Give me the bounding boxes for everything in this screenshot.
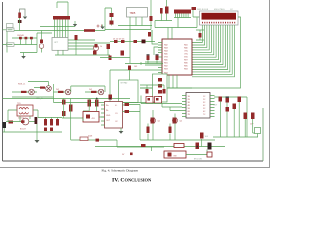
capacitor C13 [147,56,150,61]
resistor R3 [40,87,45,89]
svg-text:KEYPAD: KEYPAD [121,82,129,85]
capacitor C18 [50,128,53,132]
wire [105,0,151,30]
resistor R5 [58,91,64,93]
wire [257,134,259,138]
wire [8,110,38,122]
svg-text:4DIG 7SEG: 4DIG 7SEG [214,9,225,11]
svg-text:RA0: RA0 [184,47,188,50]
wire bus [14,27,105,31]
speaker LS1 [207,152,212,157]
svg-text:RB1: RB1 [164,63,168,65]
transformer T1 [17,105,33,116]
wire [28,82,49,88]
wire [141,96,182,111]
resistor R17 [219,97,223,102]
wire bottom row [95,146,225,148]
LED D4 [160,8,163,14]
svg-text:RA1: RA1 [184,44,188,47]
resistor R19 [238,97,242,103]
resistor R8 [125,110,130,113]
svg-text:IN-: IN- [106,110,109,112]
display DS1 [200,11,239,25]
svg-text:1k: 1k [100,46,102,48]
ground [21,56,26,59]
ground [23,17,27,20]
capacitor C19 [226,97,230,98]
capacitor C11 [121,51,125,56]
ground [120,128,122,131]
resistor R10 [147,127,150,134]
diode D20 [148,32,151,37]
resistor R4 [21,91,27,93]
wire [55,20,69,38]
diode D8 [30,37,33,40]
resistor R1 [84,29,95,32]
schematic border left [2,2,4,161]
ground [102,25,104,27]
wire [12,84,54,103]
svg-text:RB4: RB4 [184,69,188,71]
resistor R15 [146,89,149,94]
wire [129,70,131,80]
resistor R9 [80,137,88,141]
resistor R18 [233,104,237,110]
wire stub [3,30,7,45]
svg-text:BC547: BC547 [20,129,26,131]
resistor R13 [107,44,111,49]
wire [152,30,158,55]
wire [201,139,203,147]
svg-text:OUT: OUT [213,105,218,107]
wire mcu top pins [168,28,172,40]
wire [123,105,141,141]
wire [37,31,52,53]
diode D3 [150,16,153,21]
svg-text:RA2: RA2 [164,44,168,47]
wire [155,0,172,28]
wire [83,117,164,147]
wire verticals [221,102,248,138]
node B [96,98,98,100]
shunt reg U4 [83,112,99,123]
svg-text:7805: 7805 [130,11,136,15]
transistor Q4 [65,89,71,95]
resistor R7 [125,103,130,106]
inverter box U7 [164,151,186,158]
capacitor C7 [95,100,99,107]
svg-text:12V: 12V [250,124,254,126]
opto U8 [146,97,153,104]
wire [19,18,21,31]
resistor R2 [192,7,197,10]
svg-text:1N4148: 1N4148 [17,35,24,37]
wire mid bus [110,30,155,42]
diode D13 [109,95,113,100]
capacitor C16 [3,122,7,128]
microcontroller U1 [162,39,192,75]
diode D12 [62,111,66,116]
capacitor C3 [110,21,114,25]
wire [105,8,112,31]
svg-text:OSC: OSC [184,54,189,56]
ground [35,140,40,143]
wire psu bottom rail [71,139,117,141]
wire [20,53,37,57]
diode D19 [134,40,138,43]
opamp U5 [105,102,123,129]
wire [20,9,26,16]
transistor Q5 [98,89,104,95]
power arrow [74,21,76,24]
svg-text:Fig. 4. Schematic Diagram: Fig. 4. Schematic Diagram [102,168,139,172]
capacitor C9 [196,143,200,150]
capacitor C15 [142,40,146,44]
svg-text:GND: GND [106,115,111,117]
ic U3 [52,38,68,51]
transistor Q12 [40,40,43,44]
svg-text:RB3: RB3 [164,69,168,71]
diode D6 [19,37,22,40]
led D22 [130,153,133,156]
svg-text:RA4: RA4 [164,50,168,53]
capacitor C5 [69,105,73,112]
connector J3 [255,128,261,134]
wire [57,2,68,16]
schematic border right [262,108,264,161]
wire [186,150,207,155]
resistor R11 [169,127,172,134]
diode D16 [141,144,146,147]
display pin row [202,22,235,24]
transistor Q7 [35,117,38,124]
svg-text:O2: O2 [115,121,118,123]
diode D14 [244,113,248,120]
wire [100,26,163,64]
svg-text:Q1: Q1 [158,121,161,123]
capacitor C4 [165,7,169,14]
wire [20,39,31,44]
svg-text:103: 103 [134,66,137,68]
diode D1 [18,20,22,23]
diode D18 [121,40,125,43]
capacitor C12 [109,56,112,61]
zener Z2 [50,119,53,126]
connector J1 [53,16,70,20]
wire [193,10,200,17]
svg-text:RUN_L1: RUN_L1 [18,84,25,86]
svg-text:2k2: 2k2 [56,89,59,91]
diode D7 [25,37,28,40]
zener Z3 [56,119,59,126]
crystal block box [153,74,168,102]
svg-text:2k2: 2k2 [89,89,92,91]
wire [54,70,163,103]
svg-text:104: 104 [205,136,209,138]
net label [7,24,14,28]
svg-text:TR1: TR1 [17,103,21,105]
transistor Q11 [93,45,98,50]
wire psu top rail [3,98,131,100]
svg-text:IV. CONCLUSION: IV. CONCLUSION [112,178,152,184]
diode D9 [75,35,78,40]
svg-text:VDD: VDD [184,57,189,59]
diode D17 [114,40,118,43]
svg-text:RB6: RB6 [184,63,188,65]
capacitor C1 [18,13,21,19]
zener Z1 [44,119,47,126]
capacitor C20 [226,107,230,112]
wire output top [214,97,247,110]
svg-text:RB2: RB2 [164,66,168,68]
resistor R12 [174,144,184,148]
svg-text:RB0: RB0 [164,60,168,62]
mcu left pin stubs [141,43,162,73]
wire pins [101,105,105,125]
wire left rail [7,32,37,53]
svg-text:4148: 4148 [88,136,92,138]
resistor pack [158,78,162,82]
net label [7,28,15,32]
wire outer bus return [140,17,241,88]
wire [83,99,97,112]
node E [209,146,211,148]
transistor Q8 [151,118,155,124]
wire [3,122,63,141]
diode D21 [96,139,100,142]
wire pins [118,17,152,26]
display bus wires [192,25,235,77]
capacitor C10 [93,51,97,55]
mcu bottom pins [140,75,192,88]
wire [213,119,258,137]
wire pins [155,14,197,28]
svg-text:RB5: RB5 [184,66,188,68]
transistor Q6 [22,118,29,125]
wire [54,86,106,92]
svg-text:5V: 5V [122,154,125,156]
svg-text:DIS1 8.8.8.8: DIS1 8.8.8.8 [197,9,209,11]
transistor Q10 [208,143,212,150]
transistor Q3 [29,89,35,95]
block box [119,80,139,103]
wire [140,85,164,89]
svg-text:RA5: RA5 [164,53,168,56]
capacitor C17 [44,128,47,132]
node D [196,146,198,148]
net label [7,43,15,47]
capacitor C2 [110,13,114,17]
node A [97,25,102,28]
diode D10 [9,121,14,124]
node C [109,98,111,100]
resistor R14 [128,66,131,71]
driver U6 [186,93,210,119]
page frame right edge [0,0,270,168]
svg-text:OSC: OSC [184,51,189,53]
driver pin stubs [182,96,215,117]
diode D11 [62,100,66,105]
opto U9 [155,97,162,104]
capacitor C21 [199,33,202,38]
wire mcu to transistor row [110,69,158,71]
capacitor C14 [156,56,159,61]
wire [151,147,153,152]
wire [55,49,110,55]
wire [38,118,62,120]
svg-text:431: 431 [92,118,95,120]
regulator U2 7805 [127,8,148,18]
wire [62,99,83,141]
capacitor C8 [200,133,204,139]
wire pins [68,40,110,49]
resistor R16 [163,89,166,94]
connector J2 [174,10,191,14]
svg-text:Q2: Q2 [180,121,183,123]
diode D15 [251,113,255,120]
svg-text:8R 0.5W: 8R 0.5W [194,159,202,161]
resistor R6 [91,91,97,93]
transistor Q9 [173,118,177,124]
svg-text:RB7: RB7 [184,60,188,62]
wire [75,40,77,55]
svg-text:O1: O1 [115,113,118,115]
transistor Q2 [46,86,52,92]
capacitor C6 [88,100,92,107]
wire [140,110,215,140]
svg-text:RA3: RA3 [164,47,168,50]
schematic border bottom [3,160,264,162]
